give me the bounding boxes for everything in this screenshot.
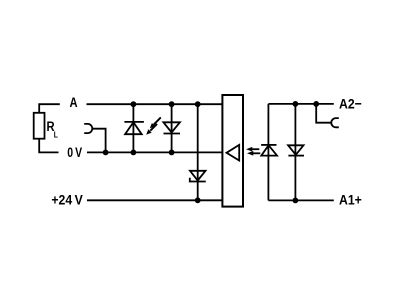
input LED V2 [261,145,277,156]
wire A2 to socket [316,104,331,123]
wire input LED rail [267,104,269,200]
svg-text:A1+: A1+ [339,192,362,208]
wire rail A2- top [268,103,333,105]
wire input diode rail [294,104,296,200]
svg-text:L: L [54,130,58,140]
socket contact right [331,118,339,127]
node A2 socket [313,101,319,107]
wire rail +24V [87,199,222,201]
wire diode D1 branch [132,104,134,152]
LED V1 [163,122,180,133]
node 0V LED [169,150,175,156]
wire rail A1+ bottom [268,199,333,201]
wire RL top to A stub [39,104,60,113]
label A [70,95,78,110]
node A diode D1 [131,101,137,107]
wire RL bottom to 0V stub [39,139,58,153]
wire socket to 0V [93,129,106,153]
label +24V [51,192,83,208]
wire LED branch [171,104,173,152]
diode D1 [124,122,143,134]
optocoupler U1 box [222,95,243,207]
zener diode D2 [190,171,206,182]
node A2 diode D3 [293,101,299,107]
svg-text:+24 V: +24 V [51,192,83,208]
wire rail 0V [87,151,222,153]
socket contact left [84,124,92,133]
wire rail A [87,103,223,105]
label A2- [339,96,362,112]
optocoupler receiver triangle [227,145,240,161]
LED V1 emission arrows [146,117,161,134]
svg-text:0 V: 0 V [67,145,83,161]
node 0V socket [103,150,109,156]
node +24V zener branch [195,197,201,203]
optocoupler light arrows [246,147,260,156]
wire zener branch [197,104,199,200]
node A1 diode D3 [293,198,299,204]
label A1+ [339,192,362,208]
node A zener branch [195,101,201,107]
label RL [47,119,59,140]
node 0V diode D1 [131,150,137,156]
node A LED [169,101,175,107]
label 0V [67,145,83,161]
resistor RL [34,113,45,139]
protection diode D3 [288,145,304,155]
svg-text:A: A [70,95,78,110]
svg-text:A2−: A2− [339,96,362,112]
